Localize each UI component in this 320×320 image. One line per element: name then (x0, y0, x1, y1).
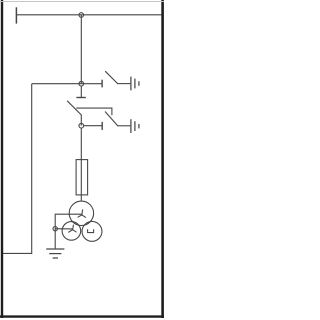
node A (cable junction) (79, 81, 84, 86)
busbar left end terminator (15, 7, 17, 23)
wire (top winding neutral to earthing bus) (55, 214, 82, 226)
wire (feeder horizontal through node A) (32, 83, 102, 85)
earthing switch ES1 fixed contact bar (101, 80, 103, 88)
ground (transformer neutral earth) (46, 249, 64, 258)
border frame (0, 0, 164, 318)
wire (cable loop: down left side) (3, 84, 32, 254)
wire (ES2 hinge to ground) (117, 125, 130, 127)
disconnector Q1 blade (open) (67, 101, 81, 115)
wye symbol (bottom-left winding) (68, 225, 76, 233)
disconnector Q1 fixed contact T-bar (76, 97, 85, 99)
wire (node A down to switch contact) (80, 86, 82, 98)
wire (ES1 hinge to ground) (117, 83, 130, 85)
fuse F1 (76, 160, 88, 195)
ground (ES1 earth symbol) (131, 77, 139, 91)
wire (node C to bottom-left winding star point) (55, 228, 72, 230)
earthing switch ES2 fixed contact bar (101, 122, 103, 130)
wire (bus tap down to node A) (80, 15, 82, 84)
earthing switch ES2 blade (open) (105, 112, 118, 126)
transformer T1 tertiary winding (bottom-right circle) (82, 221, 102, 241)
node (bus tap junction) (79, 13, 84, 18)
ground (ES2 earth symbol) (131, 119, 139, 133)
node C (neutral earthing junction) (53, 227, 57, 231)
busbar (16, 14, 163, 16)
wire (Q1 earth-position tap) (76, 108, 112, 115)
wire (Q1 hinge down to node B) (80, 115, 82, 126)
wire (node B down to fuse and transformer) (80, 128, 82, 201)
transformer T1 HV winding (top circle) (69, 201, 93, 225)
open-delta symbol (bottom-right winding) (88, 229, 94, 232)
wire (node C down to ground) (54, 227, 56, 249)
earthing switch ES1 blade (open) (105, 71, 118, 84)
node B (switch lower junction) (79, 123, 84, 128)
wire (node B to ES2 contact) (83, 125, 101, 127)
transformer T1 LV winding (bottom-left circle) (62, 222, 81, 241)
wye symbol (top winding) (78, 209, 86, 217)
